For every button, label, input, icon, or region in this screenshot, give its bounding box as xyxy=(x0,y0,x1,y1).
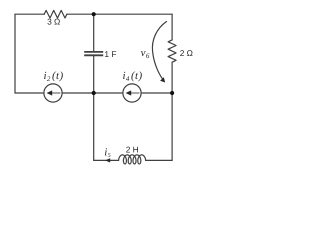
label v6 xyxy=(141,47,150,60)
wire right side lower xyxy=(171,93,173,160)
label 2 ohm xyxy=(180,48,194,58)
current source i4 xyxy=(123,84,141,102)
node dot right xyxy=(170,91,174,95)
svg-text:3 Ω: 3 Ω xyxy=(47,17,61,27)
svg-text:2 Ω: 2 Ω xyxy=(180,48,194,58)
current source i2 xyxy=(44,84,62,102)
svg-text:i4 (t): i4 (t) xyxy=(123,70,143,83)
resistor R1 3ohm xyxy=(44,10,67,18)
capacitor C 1F bottom plate xyxy=(84,54,103,56)
resistor R2 2ohm xyxy=(168,40,176,62)
wire middle row center xyxy=(62,92,123,94)
wire right side middle xyxy=(171,62,173,93)
capacitor C 1F top plate xyxy=(84,51,103,53)
label 2 H xyxy=(126,145,139,155)
svg-text:1 F: 1 F xyxy=(104,49,116,59)
label 1 F xyxy=(104,49,116,59)
current source i4 arrow xyxy=(126,90,140,95)
label i4(t) xyxy=(123,70,143,83)
wire center vertical lower xyxy=(93,56,95,160)
svg-text:i5: i5 xyxy=(104,146,111,159)
inductor L 2H xyxy=(119,155,146,164)
svg-text:v6: v6 xyxy=(141,47,150,60)
voltage v6 arrowhead xyxy=(160,77,165,82)
node dot middle xyxy=(92,91,96,95)
voltage v6 curved arrow xyxy=(152,22,166,80)
node dot top xyxy=(92,12,96,16)
wire middle row right xyxy=(141,92,172,94)
label 3 ohm xyxy=(47,17,61,27)
wire middle row left xyxy=(15,92,44,94)
wire center vertical upper xyxy=(93,14,95,51)
svg-text:2 H: 2 H xyxy=(126,145,139,155)
current i5 arrowhead on bottom wire xyxy=(105,158,110,162)
svg-text:i2 (t): i2 (t) xyxy=(44,70,64,83)
current source i2 arrow xyxy=(47,90,61,95)
wire left side xyxy=(14,14,16,93)
wire top-right segment xyxy=(67,13,172,15)
wire top-left segment xyxy=(15,13,44,15)
label i5 xyxy=(104,146,111,159)
wire bottom left of inductor xyxy=(94,159,119,161)
wire bottom right of inductor xyxy=(146,159,173,161)
label i2(t) xyxy=(44,70,64,83)
wire right side upper xyxy=(171,14,173,40)
